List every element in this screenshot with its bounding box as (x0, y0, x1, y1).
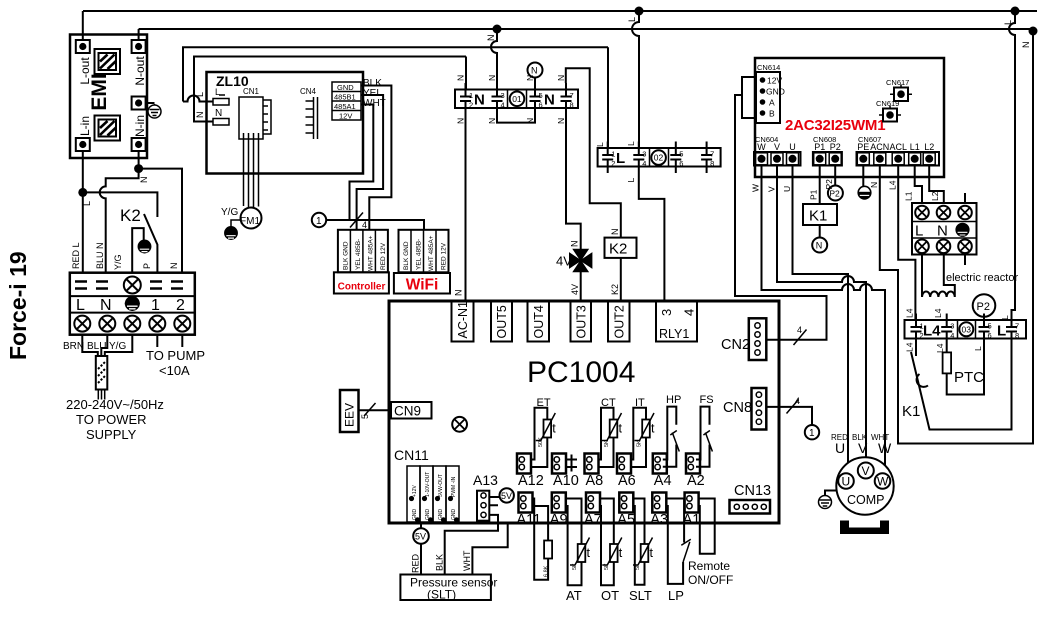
svg-text:5: 5 (988, 322, 992, 331)
connector WiFi pins (399, 230, 449, 272)
svg-text:OUT4: OUT4 (532, 305, 546, 338)
thermistor IT loop (631, 408, 646, 467)
connector CN607 (857, 152, 940, 166)
svg-text:OT: OT (601, 588, 619, 603)
svg-text:CN1: CN1 (243, 87, 260, 96)
svg-text:U: U (789, 142, 796, 152)
node L dot left (78, 188, 87, 197)
svg-text:A12: A12 (518, 473, 544, 489)
node N circle under K1 (812, 238, 827, 253)
wire N feed line (to ZL10 N fuse and strip1 pin1) (194, 57, 466, 122)
EMI terminal L-in (76, 138, 90, 151)
resistor PTC loop (947, 345, 984, 395)
svg-text:RED L: RED L (71, 242, 81, 269)
svg-text:ON/OFF: ON/OFF (688, 573, 733, 587)
svg-text:1-10V-OUT: 1-10V-OUT (425, 472, 431, 497)
svg-text:U: U (782, 186, 792, 192)
svg-text:WHT 485A+: WHT 485A+ (428, 235, 435, 271)
compressor mount bracket (840, 521, 889, 535)
svg-text:N: N (169, 263, 179, 270)
connector A11 (519, 493, 533, 513)
svg-text:N: N (487, 118, 497, 124)
node 5V circle (pressure supply) (420, 523, 422, 528)
svg-text:4: 4 (795, 396, 800, 406)
connector 485 block (GND 485B1 485A1 12V) (332, 82, 361, 120)
wire ACN loop around right side to N bus (880, 31, 1033, 444)
contactor switch K1 (916, 345, 928, 387)
node circle 1 (comm bus right) (805, 425, 819, 439)
svg-text:4: 4 (501, 101, 505, 110)
wire N-out up to N bus (138, 29, 140, 40)
svg-text:W: W (877, 475, 889, 489)
CN11 cell 5VW-OUT (433, 466, 446, 522)
svg-text:N-in: N-in (133, 115, 147, 137)
bus slash 4 on CN2 wire (794, 330, 807, 346)
svg-text:1: 1 (151, 297, 160, 314)
svg-text:5K: 5K (604, 440, 610, 447)
svg-text:K1: K1 (809, 208, 827, 225)
wire WHT 485 to controller bus (350, 105, 374, 220)
resistor 6.8K loop on A11 (533, 499, 549, 580)
svg-text:N: N (486, 35, 496, 42)
terminal block row1 symbols (75, 282, 183, 289)
board terminal OUT3 (571, 301, 592, 342)
thermistor AT loop (566, 499, 582, 586)
jumper Remote ON/OFF loop on A1 (698, 499, 715, 554)
compressor COMP (836, 457, 893, 514)
svg-text:1: 1 (809, 428, 815, 439)
fuse N in ZL10 (213, 119, 229, 126)
svg-text:V: V (862, 464, 870, 478)
PC1004 main board (389, 301, 779, 523)
svg-text:CN9: CN9 (394, 404, 421, 419)
svg-text:A8: A8 (586, 473, 604, 489)
earth symbol PE (858, 186, 872, 199)
svg-text:5K: 5K (604, 563, 610, 570)
svg-text:L-out: L-out (78, 57, 92, 85)
svg-text:WiFi: WiFi (406, 277, 439, 294)
wire A13 pin3 (WHT) to pressure sensor (472, 525, 507, 575)
svg-text:220-240V~/50Hz: 220-240V~/50Hz (66, 397, 164, 412)
node P2 circle (828, 186, 843, 201)
valve 4V (four-way) (570, 249, 592, 271)
svg-text:WHT: WHT (462, 550, 472, 571)
svg-text:5K: 5K (637, 440, 643, 447)
svg-text:2: 2 (469, 101, 473, 110)
svg-text:W: W (878, 440, 892, 456)
svg-text:5K: 5K (635, 563, 641, 570)
terminal block XT (L N e 1 2) (70, 273, 195, 335)
node N end junction top right (1029, 27, 1038, 36)
svg-text:(SLT): (SLT) (427, 588, 456, 602)
wire L node down to terminal L column (82, 192, 84, 272)
wire N-in down to N node (138, 151, 140, 169)
wire N node to BLU column with hop over L wire (100, 169, 139, 273)
terminal strip 1 (N bus) (455, 90, 578, 109)
svg-text:L4: L4 (888, 180, 898, 190)
svg-text:4V: 4V (570, 284, 580, 295)
svg-text:t: t (651, 422, 655, 436)
svg-text:N: N (456, 118, 466, 124)
wire strip1 pins4-6 bridge (497, 115, 535, 123)
board terminal OUT5 (491, 301, 512, 342)
pressure sensor box (400, 575, 491, 601)
wire A13 pin1 to 5V (489, 496, 499, 498)
wire L-in down to L node (82, 151, 84, 192)
svg-text:8: 8 (570, 101, 574, 110)
relay coil K1 box (803, 204, 837, 225)
svg-text:Remote: Remote (688, 559, 730, 573)
svg-text:K2: K2 (609, 241, 627, 258)
earth circle below FM1 (225, 227, 238, 240)
svg-text:1: 1 (611, 150, 615, 159)
svg-text:RED 12V: RED 12V (380, 242, 387, 270)
svg-text:8: 8 (710, 159, 714, 168)
svg-text:OUT2: OUT2 (612, 305, 626, 338)
svg-text:A6: A6 (618, 473, 636, 489)
wire pump 2 (181, 335, 183, 347)
svg-text:CN604: CN604 (755, 135, 778, 144)
svg-text:L: L (76, 297, 85, 314)
node L junction at x639 (635, 7, 644, 16)
CN11 cell 1-10V-OUT (420, 466, 433, 522)
svg-text:A11: A11 (517, 512, 542, 528)
svg-text:AT: AT (566, 588, 582, 603)
svg-text:WHT 485A+: WHT 485A+ (367, 235, 374, 271)
svg-text:7: 7 (710, 150, 714, 159)
svg-text:OUT3: OUT3 (574, 305, 588, 338)
svg-text:Y/G: Y/G (113, 254, 123, 270)
svg-text:FS: FS (700, 394, 714, 406)
earth symbol COMP (819, 496, 832, 509)
svg-text:N: N (100, 297, 112, 314)
terminal strip 2 (L bus) (598, 148, 721, 167)
svg-text:t: t (587, 546, 591, 560)
connector CN2 (749, 318, 767, 360)
svg-text:LP: LP (668, 588, 684, 603)
svg-text:N: N (570, 241, 580, 248)
svg-text:CN13: CN13 (734, 483, 771, 499)
ground earth symbol right of EMI (148, 104, 161, 118)
wire COMP to earth (825, 491, 837, 496)
svg-text:GND: GND (766, 87, 785, 97)
svg-text:N: N (531, 66, 538, 76)
svg-text:N: N (487, 75, 497, 81)
svg-text:A4: A4 (654, 473, 672, 489)
wire CN8 to node 1 (766, 407, 812, 425)
svg-text:N: N (139, 177, 149, 184)
valve connector EEV (340, 390, 359, 432)
ZL10 board box (207, 72, 364, 174)
svg-text:electric reactor: electric reactor (946, 272, 1018, 284)
pressure switch LP loop (666, 499, 684, 584)
connector A6 (617, 454, 631, 474)
svg-text:BLK GND: BLK GND (403, 241, 410, 270)
svg-text:5: 5 (679, 150, 683, 159)
svg-text:Force-i 19: Force-i 19 (5, 251, 31, 360)
svg-text:N: N (610, 229, 620, 236)
svg-text:L: L (595, 142, 605, 147)
svg-text:CN2: CN2 (721, 337, 750, 353)
svg-text:L1: L1 (904, 191, 914, 201)
wire N right drop (joins ACN loop) (1032, 31, 1034, 444)
connector A9 (552, 493, 566, 513)
svg-text:L: L (1003, 20, 1013, 25)
relay contact K2 arm (pump) (144, 214, 157, 273)
svg-text:A9: A9 (550, 512, 568, 528)
wire CN614 comm to CN2 (around board) (735, 95, 827, 340)
connector CN604 (754, 152, 801, 166)
wire EMI mid terminal to earth (146, 102, 155, 104)
EMI terminal L-out (76, 40, 90, 53)
svg-text:N: N (1021, 42, 1031, 49)
svg-text:L2: L2 (930, 191, 940, 201)
svg-text:ACL: ACL (889, 142, 907, 152)
compressor wire U (793, 166, 849, 464)
svg-text:RLY1: RLY1 (659, 327, 689, 341)
svg-text:U: U (842, 475, 851, 489)
svg-text:N: N (456, 75, 466, 81)
svg-text:BLU: BLU (87, 341, 106, 352)
svg-text:CT: CT (601, 397, 616, 409)
fuse L in ZL10 (213, 99, 229, 106)
svg-text:YEL 485B-: YEL 485B- (355, 239, 362, 270)
svg-text:PWM -IN: PWM -IN (451, 476, 457, 497)
svg-text:L-in: L-in (78, 116, 92, 136)
Controller label box (334, 272, 389, 293)
fan motor FM1 (241, 208, 262, 229)
svg-text:K2: K2 (120, 206, 141, 225)
svg-text:BRN: BRN (63, 341, 84, 352)
svg-text:L: L (616, 150, 625, 167)
svg-text:3: 3 (642, 150, 646, 159)
svg-text:L4: L4 (905, 342, 915, 352)
svg-text:CN619: CN619 (876, 99, 899, 108)
svg-text:CN8: CN8 (723, 400, 752, 416)
node N junction at x497 (493, 25, 502, 34)
wire ACL to L4 strip pin1 (898, 166, 915, 321)
svg-text:B: B (769, 109, 775, 119)
reactor terminal block (912, 203, 977, 255)
node circle 1 (comm bus left) (312, 213, 326, 227)
svg-text:A2: A2 (687, 473, 705, 489)
svg-text:Y/G: Y/G (109, 341, 126, 352)
wire 5V to pressure sensor (RED) (420, 544, 422, 575)
svg-text:N: N (556, 75, 566, 81)
bus slash 5 (364, 403, 376, 416)
svg-text:BLK GND: BLK GND (342, 241, 349, 270)
svg-text:RED 12V: RED 12V (440, 242, 447, 270)
CN11 cell PWM -IN (446, 466, 459, 522)
svg-text:L: L (195, 92, 205, 97)
svg-text:01: 01 (512, 94, 522, 104)
earth circle on Y/G wire (138, 240, 151, 253)
svg-text:4: 4 (950, 331, 954, 340)
svg-text:3: 3 (659, 309, 674, 316)
svg-text:N: N (869, 182, 879, 188)
svg-text:1: 1 (316, 216, 322, 227)
bus slash 4 (350, 213, 363, 228)
wire L feed line (to ZL10 L fuse and strip2 pin1) (183, 47, 608, 148)
svg-text:8: 8 (1015, 331, 1019, 340)
jumper on A10 (566, 455, 577, 472)
svg-text:L: L (626, 141, 636, 146)
svg-text:N: N (454, 290, 464, 297)
svg-text:A5: A5 (617, 512, 635, 528)
CN11 cell +12V (407, 466, 420, 522)
svg-text:CN614: CN614 (757, 63, 780, 72)
svg-text:6: 6 (988, 331, 992, 340)
svg-text:N: N (816, 241, 823, 251)
terminal block row1 lamp circle (124, 277, 141, 294)
svg-text:12V: 12V (767, 76, 782, 86)
svg-text:AC-N1: AC-N1 (456, 301, 470, 339)
svg-text:4: 4 (362, 220, 367, 230)
bus slash 4 on CN8 wire (787, 400, 799, 414)
wire N node right then down to terminal 2 column (139, 169, 182, 273)
EMI terminal N-in (132, 138, 146, 151)
svg-text:TO POWER: TO POWER (76, 412, 147, 427)
svg-text:CN11: CN11 (394, 447, 429, 463)
svg-text:2: 2 (611, 159, 615, 168)
svg-text:L: L (997, 323, 1006, 340)
terminal strip 3 (L4 / L) (905, 320, 1027, 339)
svg-text:OUT5: OUT5 (495, 305, 509, 338)
svg-text:1: 1 (469, 91, 473, 100)
wires CN1 to FM1 (244, 133, 259, 208)
thermistor SLT loop (633, 499, 644, 585)
wire pump 1 (156, 335, 158, 347)
svg-text:L4: L4 (905, 308, 915, 318)
board terminal OUT2 (608, 301, 630, 342)
svg-text:A7: A7 (584, 512, 602, 528)
wire L right drop to L4 strip pin7 with hop over N bus (1009, 11, 1015, 320)
EMI choke bottom (hatched) (95, 116, 121, 141)
svg-text:5VW-OUT: 5VW-OUT (438, 474, 444, 497)
svg-text:6.8K: 6.8K (544, 565, 550, 577)
wire EEV to CN9 (359, 409, 392, 411)
connector A7 (586, 493, 600, 513)
svg-text:CN4: CN4 (300, 87, 317, 96)
svg-text:BLU N: BLU N (95, 242, 105, 269)
svg-text:Controller: Controller (338, 282, 386, 293)
lamp symbol on board (452, 417, 467, 432)
WiFi label box (394, 273, 450, 294)
svg-text:L: L (215, 87, 220, 97)
wire Y/G earth branch (132, 228, 144, 273)
svg-text:YEL 485B-: YEL 485B- (415, 239, 422, 270)
svg-text:12V: 12V (339, 112, 352, 121)
board terminal OUT4 (528, 301, 550, 342)
svg-text:BLK: BLK (435, 554, 445, 571)
connector CN9 (391, 402, 432, 419)
svg-text:5V: 5V (501, 491, 512, 501)
wire P2 to P2 circle (834, 166, 836, 186)
wire strip2 pin4 to RLY1 pin3 (639, 173, 665, 301)
svg-text:P1: P1 (809, 189, 819, 200)
svg-text:HP: HP (666, 394, 681, 406)
svg-text:N: N (937, 223, 948, 240)
svg-text:7: 7 (570, 91, 574, 100)
earth symbol in reactor block (956, 223, 969, 236)
connector A12 (517, 454, 531, 474)
svg-text:K2: K2 (610, 284, 620, 295)
svg-text:ET: ET (537, 397, 551, 409)
compressor wire V with hop (777, 166, 866, 459)
svg-text:485A1: 485A1 (334, 102, 356, 111)
svg-text:W: W (751, 184, 761, 192)
svg-text:A1: A1 (683, 512, 701, 528)
board relay output RLY1 (656, 301, 697, 342)
svg-text:2: 2 (176, 297, 185, 314)
cable tails (98, 390, 104, 400)
svg-text:CN607: CN607 (858, 135, 881, 144)
svg-text:5K: 5K (572, 563, 578, 570)
svg-text:02: 02 (654, 153, 664, 163)
wire L-out up to L bus (82, 11, 84, 40)
svg-text:A13: A13 (473, 472, 498, 488)
svg-text:COMP: COMP (847, 493, 885, 507)
svg-text:V: V (767, 186, 777, 192)
wire YEL 485 to controller bus (357, 95, 384, 230)
svg-text:+12V: +12V (412, 485, 418, 497)
svg-text:V: V (858, 440, 868, 456)
supply cable (hatched) (96, 356, 108, 390)
wire K1 to N circle (819, 225, 821, 238)
node L junction at x1015 (1011, 7, 1020, 16)
board terminal AC-N1 (452, 301, 474, 342)
svg-text:GND: GND (337, 83, 354, 92)
relay coil K2 box (605, 238, 637, 258)
wire L node to K2 fixed contact (83, 192, 158, 217)
wire P1 to K1 coil (819, 166, 821, 205)
svg-text:IT: IT (635, 397, 645, 409)
svg-text:P2: P2 (977, 301, 990, 313)
wire N drop to strip1 pin3 with hop over L line (491, 29, 497, 89)
svg-text:P: P (142, 263, 152, 269)
svg-text:PC1004: PC1004 (527, 356, 635, 389)
wire P2 to L4 strip pin5 (983, 317, 985, 320)
node N circle above strip1 pin5 (528, 63, 543, 78)
wire strip1 pin7 to relay coil K2 (566, 68, 621, 237)
terminal block row2 earth symbol (125, 296, 140, 311)
wire L drop to strip2 pin3 with hops (632, 11, 639, 148)
connector A1 (685, 493, 699, 513)
svg-text:SUPPLY: SUPPLY (86, 427, 137, 442)
wire L2 to reactor (929, 166, 944, 204)
connector CN608 (813, 152, 842, 166)
svg-text:4: 4 (642, 159, 646, 168)
wire BLK 485 to controller bus (361, 86, 391, 230)
compressor wire W with two hops (762, 166, 886, 467)
wire Y/G to supply cable (105, 335, 133, 356)
terminal block row3 screw circles (74, 316, 190, 332)
wire BLU to supply cable (101, 335, 107, 356)
wire PE to earth (862, 166, 864, 187)
svg-text:<10A: <10A (159, 363, 190, 378)
EMI choke top (hatched) (95, 49, 121, 74)
thermistor ET loop (531, 408, 547, 467)
svg-text:4V: 4V (556, 254, 572, 269)
svg-text:L: L (626, 178, 636, 183)
svg-text:L1: L1 (910, 142, 920, 152)
svg-text:CN617: CN617 (886, 78, 909, 87)
svg-text:L2: L2 (924, 142, 934, 152)
wire L bus top (83, 10, 1037, 12)
svg-text:7: 7 (1015, 322, 1019, 331)
connector A4 (653, 454, 667, 474)
svg-text:t: t (650, 546, 654, 560)
